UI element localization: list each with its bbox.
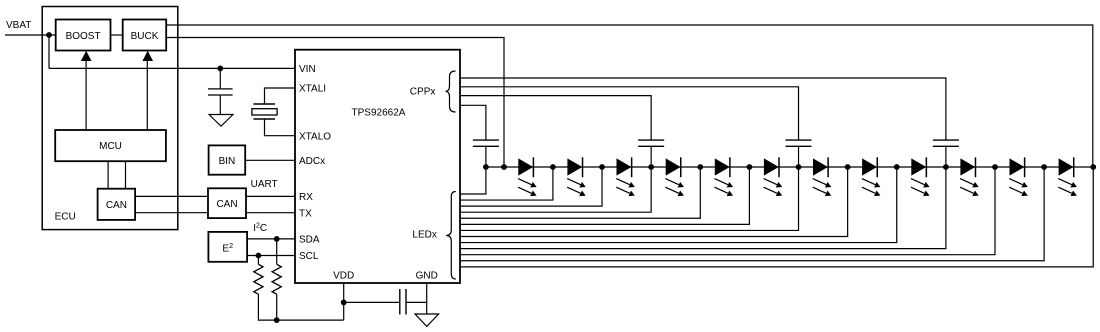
LED D3 [616,157,635,196]
svg-text:ECU: ECU [55,211,76,222]
wire C2 to LED string [485,147,487,167]
wire LED string tap 11 to LEDx pin [460,167,995,255]
ground (GND pin) [415,314,439,326]
brace LEDx [446,192,456,280]
pin label TX [299,208,312,219]
wire E2 to SCL [247,255,295,257]
wire MCU to CAN right [125,161,127,189]
label ECU [55,211,76,222]
node LED string junction 4 [697,164,703,170]
buck converter BUCK [123,20,167,51]
svg-text:ADCx: ADCx [299,156,325,167]
svg-text:BOOST: BOOST [66,31,101,42]
LED D11 [1009,157,1028,196]
pin label SDA [299,235,320,246]
node LED string head [501,164,507,170]
wire VIN cap lead [219,68,221,88]
wire C1 to ground [219,96,221,115]
svg-text:BIN: BIN [219,156,236,167]
wire LED string tap 13 to LEDx pin [460,167,1093,267]
wire CAN to RX [246,195,295,197]
svg-text:TX: TX [299,208,312,219]
charge-pump capacitor C5 [933,140,959,146]
crystal X1 [252,104,277,119]
LED D6 [764,157,783,196]
charge-pump capacitor C3 [638,140,664,146]
wire SCL to R1 [257,256,259,265]
node charge-pump tap 1 [483,164,489,170]
node LED string junction 6 [796,164,802,170]
wire LED string tap 1 to LEDx pin [460,167,486,194]
wire LED string tap 7 to LEDx pin [460,167,799,230]
pin label ADCx [299,156,325,167]
wire C6 to GND net [407,301,427,303]
wire CPP4 [460,78,946,140]
wire VBAT to VIN rail (vertical) [48,35,50,68]
node SDA pull-up junction [274,236,280,242]
node LED string junction 9 [943,164,949,170]
svg-text:CAN: CAN [106,200,127,211]
node LED string junction 7 [845,164,851,170]
wire LED string tap 12 to LEDx pin [460,167,1044,261]
node LED string junction 8 [894,164,900,170]
wire CAN to TX [246,212,295,214]
node LED string junction 3 [648,164,654,170]
svg-text:CPPx: CPPx [410,87,436,98]
wire XTALI [265,88,296,104]
resistor R1 (SCL pull-up) [254,264,263,294]
label LEDx [412,229,436,240]
wire VDD to C6 [344,301,400,303]
wire BUCK supply rail to LED string head [166,38,504,168]
wire CAN bus high [135,195,208,197]
wire LED string tap 2 to LEDx pin [460,167,553,200]
wire MCU to BOOST control (with arrow) [81,51,92,130]
wire E2 to SDA [247,238,295,240]
wire VBAT input [5,34,56,36]
pin label XTALO [299,131,331,142]
EEPROM E2 block [208,232,247,262]
capacitor C6 (VDD bypass) [400,289,406,315]
resistor R2 (SDA pull-up) [272,264,281,294]
wire LED string tap 3 to LEDx pin [460,167,602,206]
svg-text:I2C: I2C [253,222,267,234]
svg-text:XTALO: XTALO [299,131,331,142]
svg-text:TPS92662A: TPS92662A [352,108,406,119]
svg-text:VBAT: VBAT [6,20,31,31]
node LED string junction 1 [550,164,556,170]
CAN controller (ECU) [98,189,136,220]
svg-text:MCU: MCU [99,141,122,152]
wire LED string rail [486,166,1093,168]
wire LED string tap 6 to LEDx pin [460,167,749,224]
pin label SCL [299,251,319,262]
node LED string end [1090,164,1096,170]
wire CPP3 [460,87,799,140]
LED D8 [862,157,881,196]
node LED string junction 5 [747,164,753,170]
charge-pump capacitor C4 [786,140,812,146]
wire R1 to bottom rail [258,294,343,320]
wire C5 to LED string [945,147,947,167]
capacitor C1 (VIN bypass) [208,89,233,95]
pin label VIN [299,64,316,75]
node VDD cap junction [341,300,347,306]
LED D1 [518,157,537,196]
svg-text:VDD: VDD [333,270,354,281]
svg-text:SDA: SDA [299,235,320,246]
microcontroller MCU [55,130,166,161]
brace CPPx [446,71,456,112]
wire BIN to ADCx [245,159,295,161]
LED D2 [567,157,586,196]
LED D9 [911,157,930,196]
node bottom rail junction [274,317,280,323]
ground (input) [209,115,233,127]
label UART [251,179,278,190]
wire C3 to LED string [650,147,652,167]
svg-text:LEDx: LEDx [412,229,436,240]
charge-pump capacitor C2 [473,140,499,146]
label TPS92662A [352,108,406,119]
wire CPP2 [460,96,651,140]
pin label GND [416,270,438,281]
svg-text:VIN: VIN [299,64,316,75]
wire LED string tap 5 to LEDx pin [460,167,700,218]
LED D7 [813,157,832,196]
node LED string junction 11 [1041,164,1047,170]
LED D10 [960,157,979,196]
node VIN bypass junction [217,66,223,72]
ECU block outline [42,7,178,230]
BIN block [209,145,246,174]
svg-text:SCL: SCL [299,251,319,262]
LED D5 [714,157,733,196]
svg-text:BUCK: BUCK [131,31,159,42]
CAN transceiver block [208,188,246,218]
wire CAN bus low [135,212,208,214]
wire LED string tap 8 to LEDx pin [460,167,848,236]
label I2C [253,222,267,234]
wire SDA to R2 [276,239,278,264]
pin label XTALI [299,84,326,95]
label CPPx [410,87,436,98]
node VBAT junction [46,32,52,38]
svg-text:UART: UART [251,179,278,190]
svg-text:GND: GND [416,270,438,281]
wire BUCK return rail (top) [166,25,1093,167]
IC U1 TPS92662A outline [295,50,460,283]
wire R2 to bottom rail [276,294,278,320]
node SCL pull-up junction [256,253,262,259]
LED D12 [1058,157,1077,196]
label VBAT [6,20,31,31]
wire LED string tap 10 to LEDx pin [460,167,946,249]
wire VIN rail [49,67,295,69]
wire LED string tap 4 to LEDx pin [460,167,651,212]
wire GND pin down [426,283,428,314]
wire MCU to BUCK control (with arrow) [142,51,153,130]
pin label VDD [333,270,354,281]
wire VDD pin down [343,283,345,320]
wire MCU to CAN left [107,161,109,189]
wire XTALO [265,120,296,136]
wire BOOST to BUCK [111,34,123,36]
node LED string junction 10 [992,164,998,170]
svg-text:XTALI: XTALI [299,84,326,95]
svg-text:CAN: CAN [216,199,237,210]
wire C4 to LED string [798,147,800,167]
wire CPP1 [460,105,486,139]
node LED string junction 2 [599,164,605,170]
svg-text:RX: RX [299,192,313,203]
LED D4 [665,157,684,196]
pin label RX [299,192,313,203]
boost converter BOOST [56,20,111,51]
wire LED string tap 9 to LEDx pin [460,167,897,243]
